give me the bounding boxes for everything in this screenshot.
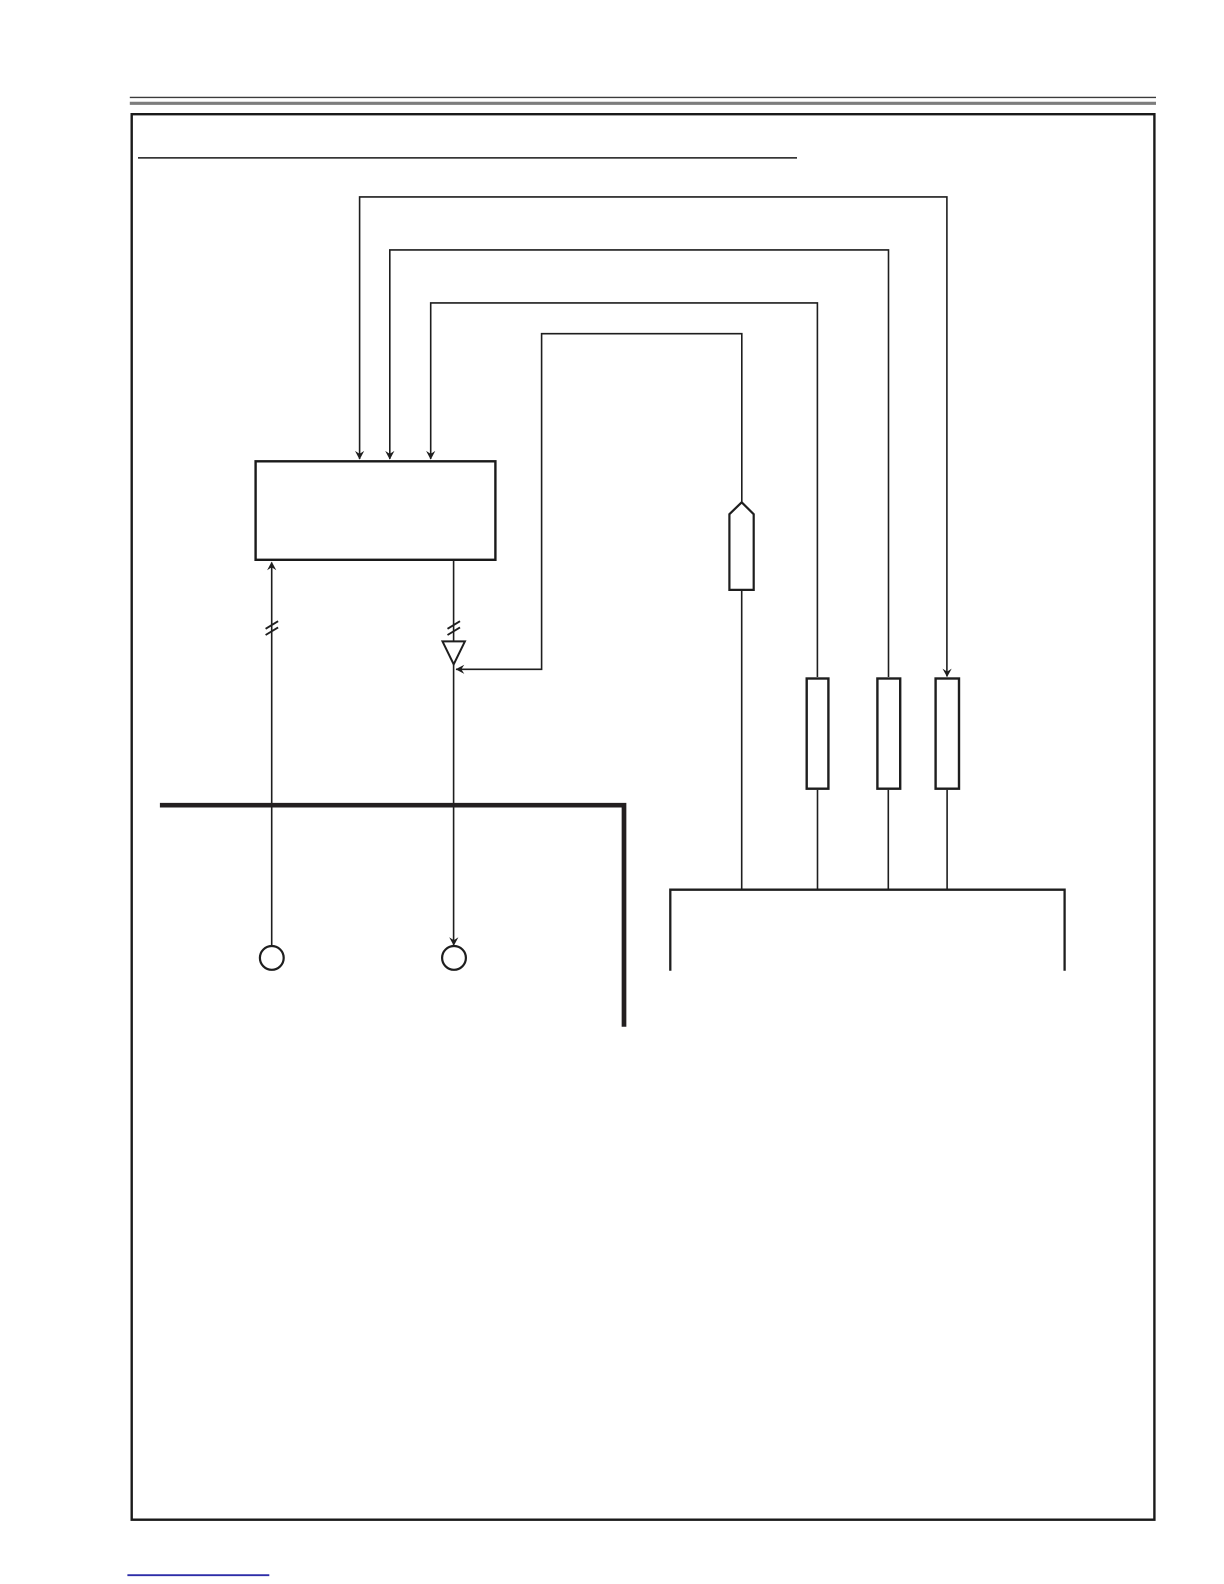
wire W1: [360, 197, 947, 677]
terminal circle T1: [260, 946, 284, 970]
break marks wire A: [266, 621, 279, 635]
title underline: [138, 157, 797, 159]
arrow W1 into resistor R3: [943, 669, 952, 677]
arrow W4 into buffer apex: [456, 665, 465, 674]
component boundary (thick corner): [160, 805, 624, 1026]
wire buffer to terminal B circle: [453, 664, 455, 945]
wire W2: [390, 250, 889, 677]
wire W3: [431, 303, 818, 677]
wire R3 to connector: [946, 790, 948, 889]
break marks wire B: [448, 621, 461, 635]
wire R2 to connector: [887, 790, 889, 889]
block U1: [256, 461, 496, 560]
header rule thin: [130, 96, 1156, 98]
resistor R1: [807, 679, 829, 789]
wire W4: [456, 334, 742, 670]
arrow into terminal B: [449, 937, 458, 945]
terminal circle T2: [442, 946, 466, 970]
arrow into U1 bottom: [267, 562, 276, 571]
connector bracket: [670, 890, 1064, 971]
wire terminal A (up arrow): [271, 563, 273, 946]
resistor R2: [877, 679, 900, 789]
wire F1 to connector: [741, 590, 743, 889]
arrow W3 into block U1: [426, 451, 435, 460]
wire R1 to connector: [817, 790, 819, 889]
footer link underline: [127, 1574, 269, 1576]
fusible link F1: [729, 502, 753, 590]
arrow W1 into block U1: [355, 451, 364, 460]
wire terminal B (from U1 bottom): [453, 561, 455, 641]
resistor R3: [936, 679, 959, 789]
buffer triangle: [443, 641, 465, 664]
page frame: [132, 114, 1155, 1520]
header rule thick gray: [130, 102, 1156, 105]
arrow W2 into block U1: [385, 451, 394, 460]
